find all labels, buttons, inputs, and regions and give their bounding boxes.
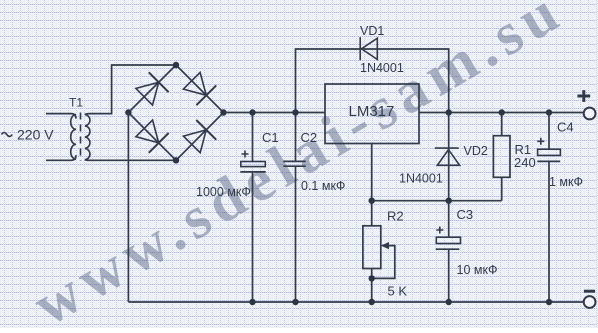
svg-text:10 мкФ: 10 мкФ: [457, 263, 498, 277]
diode VD2 1N4001: [399, 113, 488, 201]
bridge diode D4 (lower-right, cathode at plus node): [183, 120, 216, 153]
resistor R1 240: [493, 113, 535, 178]
output terminal plus: [577, 90, 595, 119]
bridge diode D2 (upper-right, cathode at plus node): [183, 72, 216, 105]
node bridge right plus: [220, 109, 226, 115]
svg-text:1 мкФ: 1 мкФ: [549, 175, 583, 189]
node R1 top: [499, 109, 505, 115]
node bridge left minus: [125, 109, 131, 115]
svg-text:0.1 мкФ: 0.1 мкФ: [301, 179, 345, 193]
wire LM317 adj pin: [371, 144, 373, 201]
capacitor C4 1uF: [537, 113, 583, 303]
wire adj line: [372, 200, 502, 202]
svg-text:T1: T1: [69, 96, 83, 110]
wire R1 bottom: [501, 177, 503, 200]
output terminal minus: [584, 291, 596, 308]
svg-text:R2: R2: [387, 209, 404, 224]
wire bottom minus rail: [128, 301, 583, 303]
capacitor C2 0.1uF: [283, 113, 345, 303]
node C1 top: [249, 109, 255, 115]
node C3 bottom: [446, 299, 452, 305]
bridge diode D3 (lower-left, cathode at AC node): [136, 120, 169, 153]
regulator U1 LM317: [325, 84, 419, 144]
AC source label ~ 220 V: [2, 127, 55, 143]
wire minus vertical from bridge: [127, 113, 129, 303]
node LM317 output junction: [446, 109, 452, 115]
node R2 wiper/bottom: [369, 275, 375, 281]
wire secondary top to bridge AC node: [85, 65, 176, 115]
transformer T1: [69, 96, 90, 162]
svg-text:240: 240: [514, 155, 536, 170]
node R2 bottom rail: [369, 299, 375, 305]
bridge edge wires: [128, 65, 223, 160]
bridge diode D1 (upper-left, anode at minus node): [136, 72, 169, 105]
svg-text:220 V: 220 V: [17, 127, 54, 143]
svg-text:1N4001: 1N4001: [360, 61, 404, 75]
svg-text:1000 мкФ: 1000 мкФ: [196, 185, 251, 199]
svg-text:LM317: LM317: [349, 103, 395, 120]
node C2 bottom: [292, 299, 298, 305]
diode VD1 1N4001: [296, 24, 449, 113]
node C4 top: [546, 109, 552, 115]
svg-text:C1: C1: [262, 130, 279, 145]
wire plus rail to LM317 input: [224, 112, 326, 114]
node C1 bottom: [249, 299, 255, 305]
node bridge top AC: [173, 62, 179, 68]
svg-text:1N4001: 1N4001: [399, 172, 443, 186]
wire secondary bottom to bridge AC node: [85, 159, 176, 162]
node VD2/C3: [446, 198, 452, 204]
svg-text:VD1: VD1: [360, 24, 384, 38]
svg-text:VD2: VD2: [464, 144, 488, 158]
capacitor C3 10uF: [436, 201, 498, 302]
capacitor C1 1000uF: [196, 113, 279, 303]
svg-text:5 K: 5 K: [388, 284, 408, 299]
node adj/R2 top: [369, 198, 375, 204]
svg-text:C2: C2: [301, 130, 318, 145]
svg-text:C3: C3: [457, 207, 474, 222]
wire LM317 output rail: [419, 112, 584, 114]
node C2 top: [292, 109, 298, 115]
node C4 bottom: [546, 299, 552, 305]
node bridge bottom AC: [173, 157, 179, 163]
potentiometer R2 5K: [363, 201, 407, 302]
wire primary bottom: [46, 155, 76, 160]
wire primary top: [46, 114, 76, 119]
svg-text:C4: C4: [557, 120, 574, 135]
